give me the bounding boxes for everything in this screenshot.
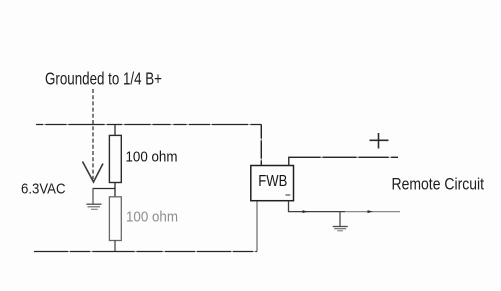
ground: center-tap ground	[86, 189, 101, 210]
pin label: minus terminal of bridge	[286, 194, 291, 196]
wire: junction tap to ground	[93, 188, 116, 190]
arrowhead: current direction mark 2	[368, 210, 374, 213]
arrow: dashed pointer from label to junction	[83, 89, 104, 182]
plus sign: DC positive output	[370, 133, 389, 149]
svg-text:6.3VAC: 6.3VAC	[21, 182, 66, 198]
svg-text:100 ohm: 100 ohm	[126, 210, 178, 226]
wire: bottom AC rail	[34, 251, 257, 253]
wire: stub from top rail to R1	[114, 125, 116, 136]
bridge rectifier U1: FWB box	[251, 166, 294, 201]
wire: top rail down to FWB input	[260, 125, 262, 166]
wire: minus rail faded right section	[345, 211, 400, 213]
wire: stub R2 bottom to bottom rail	[114, 241, 116, 252]
wire: top AC rail	[36, 124, 262, 126]
svg-text:100 ohm: 100 ohm	[126, 150, 178, 166]
wire: FWB bottom-left down to bottom rail	[256, 200, 258, 252]
ground: DC negative ground	[333, 212, 348, 231]
wire: FWB plus output stub up	[289, 157, 398, 165]
svg-text:Remote Circuit: Remote Circuit	[392, 175, 485, 194]
resistor R1 (top 100 ohm)	[109, 135, 121, 182]
arrowhead: current direction mark 1	[303, 210, 309, 213]
wire: FWB minus output down and right	[289, 201, 346, 212]
wire: stub R1 bottom to junction	[114, 183, 116, 197]
resistor R2 (bottom 100 ohm)	[109, 197, 121, 241]
svg-text:Grounded to 1/4 B+: Grounded to 1/4 B+	[45, 69, 162, 89]
svg-text:FWB: FWB	[258, 173, 287, 190]
